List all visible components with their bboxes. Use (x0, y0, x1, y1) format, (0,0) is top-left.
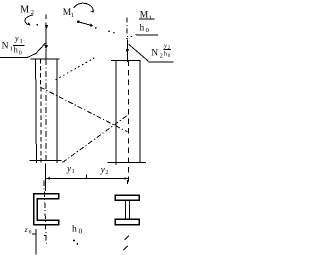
label y1 (dimension) (66, 164, 75, 176)
branch 2 left edge (115, 60, 117, 165)
label N2*y2/h0 (151, 42, 171, 59)
svg-text:y: y (100, 164, 105, 174)
fraction bar y2/h0 (163, 49, 171, 51)
leader from branch 2 top to label N2 (129, 44, 149, 61)
leader from label N1 to force line (28, 43, 46, 57)
svg-text:0: 0 (19, 50, 22, 56)
dotted leader from branch 1 top to label M1/h0 (56, 57, 97, 80)
label N1*y1/h0 (2, 34, 23, 56)
svg-text:h: h (72, 224, 77, 234)
force line N1 (axis of branch 1, loaded) (45, 14, 47, 19)
svg-text:2: 2 (160, 52, 163, 59)
label M2 (20, 4, 34, 16)
svg-text:y: y (14, 34, 19, 43)
underline of fraction M1/h0 (136, 34, 158, 36)
top cap branch 2 (111, 59, 141, 61)
branch 2 center hidden line (127, 60, 129, 182)
lattice diagonal D1 (40, 87, 128, 132)
resultant dot-arrow under M1 (77, 20, 80, 23)
branch 1 axis (dash-dot) (45, 59, 47, 164)
force line N2 (axis of branch 2) (126, 18, 129, 41)
branch 1 right edge (56, 59, 58, 163)
svg-text:N: N (151, 48, 158, 58)
svg-text:y: y (66, 164, 71, 174)
top cap branch 1 (31, 58, 60, 60)
svg-text:1: 1 (20, 39, 23, 45)
label h0 (between axes) (72, 224, 83, 235)
svg-text:N: N (2, 41, 9, 51)
svg-text:z: z (24, 225, 28, 234)
I-beam centerline dashes below (125, 236, 129, 240)
svg-text:y: y (163, 42, 167, 49)
svg-text:M: M (20, 4, 29, 15)
underline of label N1 (0, 56, 28, 58)
dimension arrow left (46, 177, 50, 179)
channel cross-section (branch 1) (34, 194, 59, 225)
svg-text:h: h (14, 46, 18, 55)
svg-text:0: 0 (79, 228, 83, 236)
channel centerline (dash-dot) (44, 181, 46, 244)
branch 2 right edge (139, 60, 141, 162)
svg-text:1: 1 (72, 169, 75, 175)
svg-text:1: 1 (149, 15, 152, 22)
svg-text:1: 1 (71, 12, 74, 19)
moment arrow M1 (74, 3, 93, 12)
branch 1 web hidden line (40, 59, 43, 163)
arrowhead on force line N1 upper (45, 25, 48, 29)
arrowhead on force line N1 lower (45, 45, 48, 49)
underline of label N2 (148, 61, 173, 63)
svg-text:0: 0 (146, 27, 149, 34)
arrowhead on force line N2 (126, 49, 129, 53)
label M1 (63, 8, 74, 19)
label y2 (dimension) (100, 164, 109, 176)
z0 extension line (35, 229, 37, 255)
moment arrow M2 (25, 15, 33, 25)
bottom cap branch 2 (107, 162, 146, 164)
branch 1 left edge (35, 59, 38, 163)
lattice diagonal D2 (63, 116, 127, 163)
I-beam web lines (125, 200, 127, 219)
label z0 (24, 225, 32, 236)
bottom cap branch 1 (30, 159, 62, 161)
fraction bar M1/h0 (139, 18, 154, 20)
svg-text:0: 0 (29, 230, 32, 236)
I-beam centerline tick above (127, 180, 129, 184)
centroid tick on dimension line (85, 175, 87, 179)
fraction bar y1/h0 (13, 44, 25, 46)
dimension extension left (branch 1 axis) (45, 164, 47, 192)
fraction M1/h0 (140, 11, 152, 35)
svg-text:2: 2 (105, 170, 108, 176)
dots under h0 (73, 240, 75, 242)
svg-text:1: 1 (10, 46, 13, 53)
svg-text:0: 0 (168, 54, 171, 59)
dimension line y1+y2 (46, 177, 129, 179)
svg-text:h: h (140, 22, 145, 32)
dimension arrow right (124, 177, 128, 179)
z0 arrow ticks (32, 233, 36, 235)
I-beam cross-section (branch 2) (115, 195, 139, 200)
